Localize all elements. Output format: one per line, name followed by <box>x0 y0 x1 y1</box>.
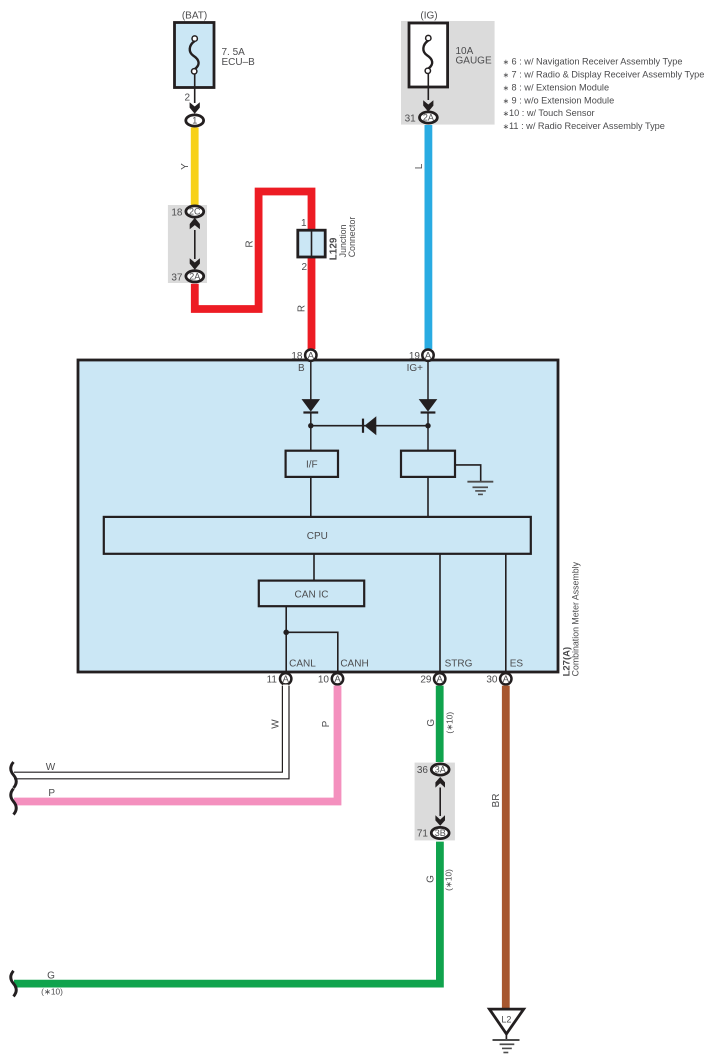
wire CPU to pin 29 (STRG) <box>439 554 441 672</box>
block I/F <box>286 451 338 477</box>
wire D2 to node A2 <box>427 413 429 451</box>
wire CPU to pin 30 (ES) <box>505 554 507 672</box>
wire branch to pin 10 <box>286 632 338 672</box>
svg-text:GAUGE: GAUGE <box>456 55 492 66</box>
svg-text:29: 29 <box>420 675 432 686</box>
junction node A1 <box>308 423 313 428</box>
combination meter assembly box <box>78 360 580 676</box>
svg-text:∗ 6 : w/ Navigation Receiver A: ∗ 6 : w/ Navigation Receiver Assembly Ty… <box>503 57 683 67</box>
break squiggle for wire P <box>11 789 17 815</box>
svg-text:1: 1 <box>192 116 197 126</box>
wire G (green) upper <box>426 686 455 762</box>
svg-text:ECU–B: ECU–B <box>222 57 256 68</box>
svg-text:A: A <box>437 674 444 685</box>
wire U2 to CPU <box>427 477 429 517</box>
junction connector L129 <box>298 217 357 273</box>
wire I/F to CPU <box>310 477 312 517</box>
junction node A2 <box>425 423 430 428</box>
svg-text:∗ 8 : w/ Extension Module: ∗ 8 : w/ Extension Module <box>503 82 609 92</box>
pin 18 circle A <box>291 350 316 363</box>
svg-text:W: W <box>270 719 281 729</box>
pin 29 circle A <box>420 673 445 685</box>
svg-text:36: 36 <box>417 765 429 776</box>
wire P (pink) <box>14 686 338 802</box>
notes list <box>503 57 705 132</box>
svg-text:2A: 2A <box>423 113 434 123</box>
svg-text:R: R <box>297 305 308 312</box>
svg-text:19: 19 <box>409 351 421 362</box>
block CAN IC <box>259 581 364 607</box>
wire D1 to node A1 <box>310 413 312 451</box>
svg-text:A: A <box>334 674 341 685</box>
svg-text:CANH: CANH <box>340 659 368 670</box>
arrowhead into node 1 <box>190 102 200 114</box>
svg-text:B: B <box>298 363 305 374</box>
svg-text:A: A <box>425 351 432 362</box>
svg-text:2: 2 <box>184 93 190 104</box>
internal ground symbol <box>467 482 493 495</box>
wire G (green) lower <box>14 842 454 997</box>
cross wire between nodes <box>311 425 428 427</box>
svg-text:G: G <box>47 970 55 981</box>
svg-text:(∗10): (∗10) <box>41 986 63 996</box>
pin 30 circle A <box>486 673 511 685</box>
svg-text:10: 10 <box>318 675 330 686</box>
svg-text:W: W <box>46 762 56 773</box>
svg-text:CPU: CPU <box>307 531 328 542</box>
svg-text:Combination Meter Assembly: Combination Meter Assembly <box>570 561 580 676</box>
svg-text:31: 31 <box>405 114 417 125</box>
pin 10 circle A <box>318 673 343 685</box>
svg-text:L2: L2 <box>501 1014 511 1024</box>
svg-text:G: G <box>426 719 437 727</box>
break squiggle for wire G <box>11 971 17 997</box>
wire L (blue) <box>414 125 428 349</box>
svg-text:37: 37 <box>171 273 183 284</box>
svg-text:∗11 : w/ Radio Receiver Assemb: ∗11 : w/ Radio Receiver Assembly Type <box>503 121 665 131</box>
diode D1 <box>302 399 321 412</box>
svg-text:BR: BR <box>491 794 502 808</box>
svg-text:∗ 9 : w/o Extension Module: ∗ 9 : w/o Extension Module <box>503 95 615 105</box>
svg-text:ES: ES <box>510 659 524 670</box>
svg-text:IG+: IG+ <box>407 363 424 374</box>
pin 19 circle A <box>409 350 434 363</box>
break squiggle for wire W <box>11 762 17 788</box>
svg-text:A: A <box>503 674 510 685</box>
svg-text:(∗10): (∗10) <box>445 712 455 734</box>
connector block 2C/2A (gray) <box>168 205 207 284</box>
wire from fuse to connector 1 <box>184 75 194 104</box>
wire U2 to internal ground <box>455 465 481 482</box>
svg-text:2C: 2C <box>189 207 201 217</box>
block CPU <box>104 517 531 554</box>
diode D2 <box>419 399 438 412</box>
svg-text:11: 11 <box>267 675 278 686</box>
fuse F1 (BAT) 7.5A ECU-B <box>175 11 256 88</box>
svg-text:(IG): (IG) <box>420 11 437 22</box>
wire CPU to CAN IC <box>313 554 315 581</box>
svg-text:P: P <box>48 788 55 799</box>
svg-text:18: 18 <box>171 208 183 219</box>
svg-text:18: 18 <box>291 351 303 362</box>
svg-text:∗ 7 : w/ Radio & Display Recei: ∗ 7 : w/ Radio & Display Receiver Assemb… <box>503 70 705 80</box>
svg-text:R: R <box>244 240 255 247</box>
svg-text:I/F: I/F <box>306 460 318 471</box>
svg-text:3A: 3A <box>435 765 446 775</box>
svg-text:A: A <box>283 674 290 685</box>
ground G1 (L2) <box>489 1009 523 1052</box>
svg-text:STRG: STRG <box>445 659 473 670</box>
svg-text:Y: Y <box>180 163 191 170</box>
fuse F2 (IG) 10A GAUGE <box>401 11 495 125</box>
connector block 3A/3B (gray) <box>415 763 455 841</box>
junction node CAN <box>283 630 289 636</box>
svg-text:2: 2 <box>301 262 307 273</box>
svg-text:P: P <box>321 720 332 727</box>
wire R (red) <box>195 192 312 350</box>
svg-text:G: G <box>426 875 437 883</box>
svg-text:∗10 : w/ Touch Sensor: ∗10 : w/ Touch Sensor <box>503 108 595 118</box>
wire Y (yellow) <box>180 128 195 207</box>
wire CAN IC to pin 11 <box>285 606 287 672</box>
block U2 (unlabeled regulator) <box>401 451 455 477</box>
wire pin18 to diode D1 <box>310 362 312 400</box>
svg-text:1: 1 <box>301 218 307 229</box>
svg-text:71: 71 <box>417 829 429 840</box>
wire BR (brown) <box>491 686 506 1009</box>
wire W (white with outline) <box>13 685 286 776</box>
svg-text:L: L <box>414 163 425 169</box>
svg-text:(BAT): (BAT) <box>182 11 207 22</box>
diode D3 (pointing left) <box>363 416 376 435</box>
svg-text:30: 30 <box>486 675 498 686</box>
svg-text:CAN IC: CAN IC <box>295 589 329 600</box>
svg-text:(∗10): (∗10) <box>444 869 454 891</box>
wire pin19 to diode D2 <box>427 362 429 400</box>
svg-text:2A: 2A <box>189 272 200 282</box>
pin 11 circle A <box>267 673 292 685</box>
svg-text:CANL: CANL <box>289 659 316 670</box>
svg-text:A: A <box>308 351 315 362</box>
svg-text:3B: 3B <box>435 828 446 838</box>
svg-text:Connector: Connector <box>347 217 357 258</box>
connector node 1 <box>186 115 204 126</box>
